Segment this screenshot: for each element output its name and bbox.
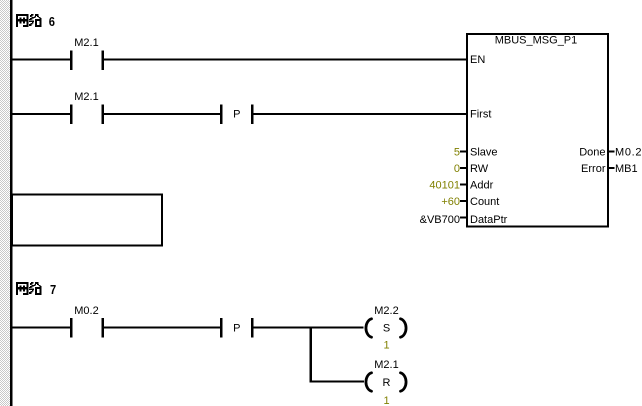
svg-text:1: 1 — [383, 340, 389, 352]
svg-text:P: P — [233, 109, 240, 121]
left gutter — [0, 0, 10, 406]
rung 1 wire: contact to block EN — [104, 59, 466, 61]
svg-text:M2.1: M2.1 — [74, 91, 98, 103]
network 7 title glyph 网 — [16, 282, 29, 295]
network 6 title glyph 网 — [16, 14, 29, 27]
rung 2 wire: contact to P contact — [104, 113, 220, 115]
svg-text:Error: Error — [581, 163, 606, 175]
tick Error — [609, 167, 615, 169]
rung 2 wire: P contact to block First — [254, 113, 467, 115]
tick Addr — [460, 184, 466, 186]
tick Slave — [460, 151, 466, 153]
svg-text:M2.1: M2.1 — [74, 37, 98, 49]
coil R M2.1 — [366, 373, 406, 391]
contact P rung 3 — [220, 318, 254, 338]
rung 2 wire: rail to contact — [12, 113, 70, 115]
svg-text:0: 0 — [454, 163, 460, 175]
left power rail — [10, 0, 13, 406]
coil S M2.2 — [366, 319, 406, 337]
svg-text:M2.1: M2.1 — [374, 359, 398, 371]
svg-text:Slave: Slave — [470, 147, 498, 159]
tick DataPtr — [460, 217, 466, 219]
svg-text:First: First — [470, 109, 491, 121]
svg-text:EN: EN — [470, 54, 485, 66]
function block U1 MBUS_MSG_P1 box — [467, 34, 608, 227]
svg-text:6: 6 — [49, 14, 55, 29]
svg-text:MBUS_MSG_P1: MBUS_MSG_P1 — [495, 35, 578, 47]
svg-text:40101: 40101 — [429, 180, 460, 192]
contact M2.1 rung 2 — [70, 105, 104, 125]
network 6 title glyph 络 — [29, 14, 42, 27]
svg-text:7: 7 — [50, 282, 56, 297]
network 7 title glyph 络 — [29, 282, 42, 295]
branch junction vertical wire — [310, 327, 313, 383]
tick RW — [460, 167, 466, 169]
svg-text:R: R — [383, 377, 391, 389]
svg-text:M0.2: M0.2 — [615, 147, 642, 159]
contact M2.1 rung 1 — [70, 50, 104, 70]
rung 3 wire: rail to contact — [12, 327, 70, 329]
branch wire to coil R — [312, 381, 364, 383]
svg-text:Addr: Addr — [470, 180, 494, 192]
tick Done — [609, 151, 615, 153]
rung 1 wire: rail to contact — [12, 59, 70, 61]
comment box — [12, 195, 162, 246]
svg-text:1: 1 — [383, 395, 389, 406]
svg-text:M0.2: M0.2 — [74, 305, 98, 317]
svg-text:MB1: MB1 — [615, 163, 638, 175]
svg-text:Count: Count — [470, 196, 499, 208]
rung 3 wire: P to coil S — [254, 327, 364, 329]
svg-text:RW: RW — [470, 163, 489, 175]
svg-text:5: 5 — [454, 147, 460, 159]
contact M0.2 rung 3 — [70, 318, 104, 338]
svg-text:&VB700: &VB700 — [420, 214, 460, 226]
svg-text:+60: +60 — [441, 196, 460, 208]
svg-text:P: P — [233, 323, 240, 335]
svg-text:M2.2: M2.2 — [374, 305, 398, 317]
svg-text:DataPtr: DataPtr — [470, 214, 508, 226]
svg-text:Done: Done — [579, 147, 605, 159]
tick Count — [460, 200, 466, 202]
contact P rung 2 — [220, 105, 254, 125]
rung 3 wire: contact to P — [104, 327, 220, 329]
svg-text:S: S — [383, 323, 390, 335]
